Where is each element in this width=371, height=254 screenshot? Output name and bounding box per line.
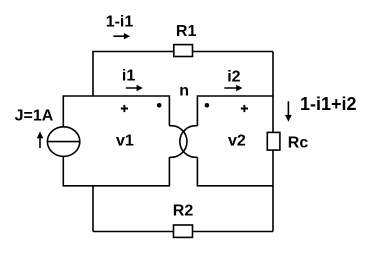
wire bottom-left segment (drop corner to R2) (93, 231, 174, 233)
svg-text:1-i1+i2: 1-i1+i2 (300, 94, 357, 114)
arrow J1 direction (up) (37, 132, 44, 149)
svg-text:J=1A: J=1A (15, 107, 54, 124)
resistor R2 (174, 225, 193, 237)
arrow 1-i1+i2 (down, through Rc) (285, 101, 292, 122)
transformer T1 secondary port box (v2) (197, 96, 273, 186)
current source J1 (circle with bar) (47, 127, 79, 157)
svg-text:v1: v1 (116, 133, 134, 150)
svg-text:i2: i2 (227, 68, 240, 85)
resistor R1 (174, 45, 193, 57)
wire top-left segment (left riser corner to R1) (93, 52, 175, 97)
svg-text:Rc: Rc (288, 134, 309, 151)
polarity dot of primary winding (157, 103, 162, 108)
svg-text:1-i1: 1-i1 (106, 13, 134, 30)
wire bottom-right segment (R2 to right rail corner) (192, 231, 273, 233)
polarity + of v2 (241, 105, 248, 112)
svg-text:n: n (179, 82, 189, 99)
svg-text:v2: v2 (228, 133, 246, 150)
wire bottom drop (v1 box to bottom net) (92, 186, 94, 232)
transformer T1 secondary coupling arc (180, 126, 198, 158)
svg-text:R2: R2 (173, 203, 194, 220)
transformer T1 primary port box (v1) (63, 96, 169, 186)
wire top-right segment (R1 to right rail corner) (192, 51, 273, 53)
arrow 1-i1 (113, 33, 130, 39)
resistor Rc (267, 132, 280, 150)
transformer T1 primary coupling arc (169, 126, 187, 158)
wire right rail (top corner down to bottom corner, through Rc) (272, 52, 274, 232)
arrow i2 (224, 85, 242, 91)
polarity dot of secondary winding (205, 103, 210, 108)
svg-text:i1: i1 (122, 68, 135, 85)
arrow i1 (126, 85, 143, 91)
polarity + of v1 (121, 105, 128, 112)
svg-text:R1: R1 (176, 23, 197, 40)
